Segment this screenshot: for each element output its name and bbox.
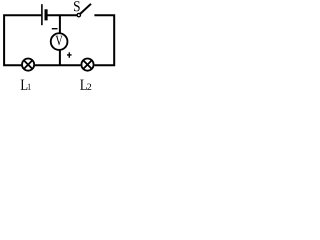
battery long plate (positive): [41, 4, 43, 25]
label L1 letter L: [21, 80, 28, 90]
switch S terminal circle: [77, 13, 80, 16]
voltmeter plus label: [67, 52, 72, 57]
lamp L1 cross: [24, 61, 32, 69]
label L2 letter L: [80, 80, 87, 90]
wire bottom between lamps: [35, 64, 81, 66]
voltmeter letter V glyph: [56, 36, 63, 45]
lamp L2 cross: [83, 61, 91, 69]
label S glyph: [74, 1, 80, 11]
label L2 subscript 2: [87, 84, 91, 90]
switch blade: [80, 4, 91, 14]
lamp L2 circle: [81, 59, 93, 71]
lamp L1 circle: [22, 59, 34, 71]
voltmeter minus label: [52, 28, 58, 30]
battery short thick plate (negative): [44, 9, 47, 20]
wire voltmeter branch lower: [59, 50, 61, 67]
voltmeter U1 circle: [51, 33, 68, 50]
wire voltmeter branch upper: [59, 14, 61, 34]
wire battery to switch: [46, 14, 77, 16]
label L1 subscript 1: [28, 84, 31, 90]
wire left loop: top-left to battery, left rail, bottom to lamp L1: [4, 15, 42, 65]
wire switch to top-right corner, right rail, to lamp L2: [94, 15, 114, 65]
